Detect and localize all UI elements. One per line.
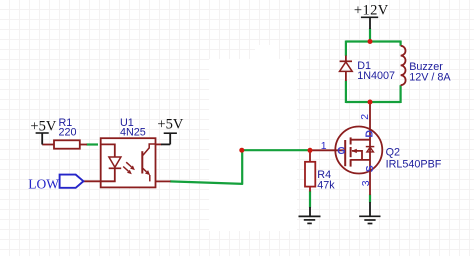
- svg-text:S: S: [364, 165, 376, 172]
- svg-text:220: 220: [59, 127, 77, 139]
- svg-text:2: 2: [359, 114, 371, 120]
- svg-text:LOW: LOW: [28, 177, 59, 192]
- svg-text:1: 1: [321, 140, 327, 152]
- svg-text:3: 3: [360, 180, 372, 186]
- svg-text:12V / 8A: 12V / 8A: [409, 71, 451, 83]
- svg-text:+12V: +12V: [354, 3, 389, 19]
- svg-text:4N25: 4N25: [120, 127, 146, 139]
- svg-text:+5V: +5V: [157, 116, 183, 132]
- svg-text:1N4007: 1N4007: [357, 70, 395, 82]
- svg-text:47k: 47k: [317, 180, 335, 192]
- svg-text:+5V: +5V: [30, 119, 56, 135]
- svg-text:D: D: [363, 130, 375, 138]
- svg-text:G: G: [337, 145, 345, 157]
- svg-text:IRL540PBF: IRL540PBF: [386, 158, 442, 170]
- svg-text:Q2: Q2: [386, 147, 400, 159]
